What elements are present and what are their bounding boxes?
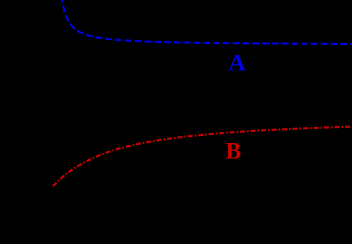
curve B (red dash-dot rising curve) [53, 127, 352, 187]
svg-text:B: B [226, 138, 241, 163]
curve A (blue dashed hyperbola) [62, 0, 352, 44]
svg-text:A: A [228, 50, 246, 75]
